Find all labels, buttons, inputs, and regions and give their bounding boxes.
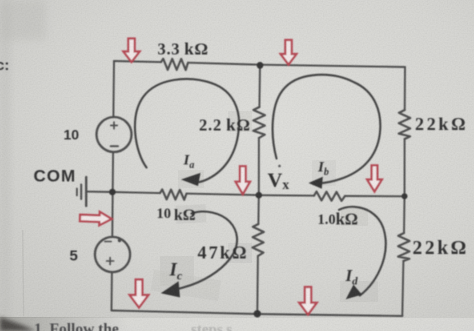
ground COM bar tall [85, 177, 87, 206]
wire middle horizontal center [187, 194, 259, 196]
wire left middle [112, 152, 114, 192]
wire middle vertical lower [257, 195, 259, 224]
node middle-left junction [109, 189, 116, 196]
wire right vertical lower [403, 196, 406, 233]
node top-middle junction [257, 62, 264, 69]
resistor R1 3.3k zigzag [161, 59, 188, 70]
wire middle horizontal right-left part [259, 194, 314, 197]
annotation arrow down bottom-right [299, 287, 317, 315]
arrowhead of Id [346, 285, 362, 300]
wire right vertical upper [404, 67, 406, 110]
resistor R4 10k zigzag [160, 189, 187, 199]
wire middle vertical upper [258, 65, 261, 107]
annotation arrow down top-middle [281, 40, 297, 65]
arrowhead of Ic [161, 281, 180, 297]
mesh loop Ib curve [273, 75, 381, 184]
wire left upper [112, 61, 115, 117]
V1 plus sign [111, 122, 118, 129]
ground COM bar middle [80, 185, 82, 200]
wire left bottom [111, 272, 113, 311]
arrowhead of Ia [181, 173, 201, 186]
V1 minus sign [111, 145, 118, 147]
node bottom-middle junction [254, 310, 261, 317]
resistor R3 22k top zigzag [399, 110, 411, 139]
annotation arrow down middle-left of Vx [236, 166, 250, 194]
resistor R7 1.0k zigzag [314, 192, 345, 201]
wire middle horizontal right part [345, 195, 405, 197]
wire COM stub [86, 191, 113, 193]
resistor R6 22k bottom zigzag [398, 233, 410, 261]
annotation arrow down bottom-left [130, 280, 149, 308]
wire right vertical bottom [402, 261, 403, 316]
annotation arrow right at 5V source [80, 211, 112, 226]
V2 plus sign [107, 258, 114, 265]
voltage source V2 5V circle [95, 237, 130, 272]
wire middle horizontal left [113, 192, 160, 193]
stray mark above Vx [278, 165, 281, 168]
current arrow Id curve [339, 207, 386, 296]
wire right vertical center [404, 139, 406, 196]
current arrow Ic curve [174, 212, 237, 290]
wire left lower [111, 192, 113, 237]
ground COM bar short [76, 189, 78, 196]
annotation arrow down middle-right [367, 165, 382, 191]
voltage source V1 10V circle [97, 117, 132, 152]
wire top-right horizontal [188, 63, 405, 67]
mark on V2 circle [118, 239, 121, 242]
node middle-right junction [402, 193, 408, 199]
annotation arrow down top-left [123, 39, 139, 63]
wire middle vertical bottom [256, 256, 259, 314]
resistor R2 2.2k zigzag [253, 107, 265, 138]
mesh loop Ia curve [135, 79, 239, 182]
wire bottom horizontal [112, 311, 403, 317]
wire top-left horizontal [114, 61, 161, 62]
arrowhead of Ib [309, 177, 323, 189]
wire middle vertical center [258, 138, 260, 195]
resistor R5 47k zigzag [252, 224, 263, 256]
V2 minus sign [105, 241, 111, 243]
node middle-center junction [255, 192, 262, 199]
